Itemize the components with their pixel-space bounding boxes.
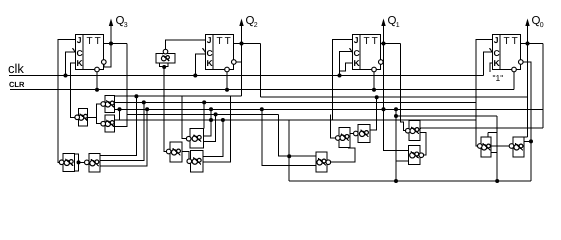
junction dot G9 pin2 on L2 <box>142 100 146 104</box>
wire G8 input bracket <box>75 154 79 171</box>
NAND gate G12 (output bubble right) <box>316 152 331 172</box>
bus L10 bottom y=181 <box>289 180 531 182</box>
NAND gate G9 <box>85 154 100 172</box>
wire G4 vert tap L3 to L6 <box>119 109 121 120</box>
svg-text:2: 2 <box>254 22 258 29</box>
clk input label <box>8 61 24 76</box>
NAND gate G10 <box>166 142 182 162</box>
wire clk to FF2 C input <box>193 54 205 78</box>
svg-text:T T: T T <box>504 36 518 47</box>
wire fork vertical to G3 and G4 bubbles <box>97 104 102 124</box>
wire FF2 Qbar bubble to junction leg <box>236 61 242 63</box>
wire Q0 junction leg down to G16 top <box>524 44 528 138</box>
flip-flop FF2 (bit Q2) with J C K inputs and TT label <box>203 35 237 72</box>
bus L6 y=120 <box>115 119 477 121</box>
output arrow and label Q3 <box>109 15 128 46</box>
wire G9 pin3 up to L3 <box>100 109 147 166</box>
wire G11 lower pin up to L1a <box>203 96 230 162</box>
wire clk end up to FF4 C input <box>483 52 492 76</box>
wire L3 down to G5 upper right pin <box>204 109 212 136</box>
junction dot G11 upper tap on L6 <box>221 118 225 122</box>
wire L4 down to G5 lower right pin <box>204 114 216 141</box>
NAND gate G11 <box>187 151 203 173</box>
wire G9 bubble to G8 input with dot <box>77 160 85 164</box>
wire G15 lower right pin stub <box>491 151 497 153</box>
wire L4 end down to G12 upper input <box>279 114 316 156</box>
svg-text:T T: T T <box>364 36 378 47</box>
NAND gate G1 (horizontal, output bubble on top, feeds FF2 J) <box>156 49 175 63</box>
svg-text:C: C <box>207 48 213 58</box>
wire G7 right to G6 bubble <box>350 133 355 135</box>
junction dot x396 on bottom bus <box>394 179 398 183</box>
wire clk to FF1 C input <box>64 52 76 78</box>
wire G1 output up and right to FF2 J <box>166 40 206 49</box>
wire L2 down to G5 top right <box>203 102 205 128</box>
wire G13 lower right pin to G14 output <box>420 132 426 155</box>
wire Q0 corner down to bus L8 <box>542 44 544 129</box>
junction dot x396 tap on L3 <box>394 107 398 111</box>
NAND gate G7 <box>336 128 351 148</box>
wire G6 right pin up to L1b <box>370 97 377 130</box>
wire Q2 corner down to bus L1b <box>260 44 262 98</box>
svg-text:J: J <box>207 35 212 45</box>
wire Q3 corner down to bus L4 and G4 lower pin <box>115 44 127 127</box>
wire Q1 junction leg down to G14 upper input <box>384 44 409 151</box>
junction dot G5 upper vert on L6 <box>209 118 213 122</box>
output arrow and label Q2 <box>239 15 257 46</box>
svg-text:K: K <box>494 58 501 68</box>
wire L6 tap down to bottom bus corner <box>288 120 290 181</box>
wire G12 output to G7 bottom <box>331 147 355 162</box>
wire CLR end up to FF4 clear bubble <box>513 72 515 90</box>
wire FF1 J vertical from G8 bubble <box>58 40 76 163</box>
bus L4 y=114.4 <box>127 113 279 115</box>
wire G1 stem down to G10 bubble <box>164 67 166 152</box>
wire L5b end down to G15 pin and bottom bus <box>496 116 498 181</box>
junction dot G9 pin1 on L1a <box>134 94 138 98</box>
NAND gate G4 <box>101 115 115 132</box>
junction dot L5b start <box>394 114 398 118</box>
junction dot G12 upper input 4-way <box>287 154 291 158</box>
svg-text:K: K <box>354 58 361 68</box>
svg-text:T T: T T <box>87 36 101 47</box>
svg-text:"1": "1" <box>493 73 504 83</box>
wire FF3 Qbar bubble to junction leg <box>382 61 385 63</box>
wire x396 stub to G14 lower input <box>396 160 409 162</box>
wire L4 down to G7 bubble <box>331 114 336 138</box>
wire FF2 clear bubble to CLR <box>225 72 229 92</box>
svg-text:K: K <box>207 58 214 68</box>
wire clk to FF3 C input <box>338 52 353 78</box>
wire FF4 K to constant 1 <box>490 63 493 72</box>
junction dot G5 lower vert on L4 <box>214 112 218 116</box>
wire G1 input yoke <box>159 63 168 68</box>
bus L8 (Q0 net) y=128 <box>420 127 543 129</box>
wire L3 down to G12 lower input <box>262 109 316 165</box>
wire G15 upper right pin to G16 bubble <box>491 145 509 147</box>
wire Q1 corner down to G13 input jog <box>401 44 406 131</box>
wire FF3 Q to junction and corner <box>381 43 401 45</box>
clk line (clock net) <box>9 75 483 77</box>
NAND gate G14 (output bubble right) <box>409 145 424 164</box>
wire FF3 K input jog <box>340 63 353 71</box>
svg-text:C: C <box>494 48 500 58</box>
wire FF1 Q to junction and corner <box>104 43 127 45</box>
junction dot G5 upper tap on L3 <box>209 107 213 111</box>
NAND gate G15 (drives FF4 J) <box>478 137 492 157</box>
wire FF3 J from bus L6 <box>332 40 352 121</box>
CLR line (clear net) <box>10 89 514 91</box>
NAND gate G3 <box>101 96 115 113</box>
junction dot G15 tap on bottom bus <box>495 179 499 183</box>
wire G5 bubble jog up to L1a <box>182 96 186 139</box>
junction dot G1 yoke <box>162 65 166 69</box>
wire G9 pin2 up to L2 <box>100 102 144 160</box>
junction dot G12 tap on L3 <box>260 107 264 111</box>
junction dot G6 tap on L1b <box>375 95 379 99</box>
NAND gate G16 <box>509 137 524 157</box>
wire FF4 Q to junction and corner <box>521 43 544 45</box>
wire FF4 Qbar bubble right and down to bottom bus <box>523 62 531 181</box>
flip-flop FF4 (bit Q0) with J C K inputs and TT label <box>490 35 524 72</box>
svg-text:K: K <box>77 58 84 68</box>
svg-text:J: J <box>494 35 499 45</box>
NAND gate G6 <box>354 125 371 143</box>
wire G16 right pin to Qbar0 vertical <box>524 139 533 143</box>
junction dot G4 vert tap on L3 <box>118 107 122 111</box>
output arrow and label Q0 <box>525 15 543 46</box>
svg-text:J: J <box>354 35 359 45</box>
NAND gate G5 <box>186 129 203 148</box>
svg-text:3: 3 <box>124 22 128 29</box>
bus L5b y=116 <box>396 115 497 117</box>
NAND gate G13 <box>406 121 421 141</box>
wire G10 right jog to G11 bubble <box>182 152 189 162</box>
svg-text:CLR: CLR <box>9 80 25 89</box>
CLR input label <box>9 80 25 89</box>
NAND gate G8 (drives FF1 J) <box>59 154 74 172</box>
wire FF1 clear bubble to CLR <box>95 72 99 92</box>
svg-text:J: J <box>77 35 82 45</box>
svg-text:C: C <box>354 48 360 58</box>
wire G13 upper right pin to L8 <box>420 128 421 130</box>
bus L2 y=102.4 <box>115 101 476 103</box>
wire L6 down to G11 upper pin <box>203 120 223 156</box>
svg-text:0: 0 <box>540 22 544 29</box>
wire G2 right to fork <box>88 116 97 118</box>
wire FF4 J vertical from G15 bubble <box>476 40 493 147</box>
wire G2 bubble left and up to FF1 K <box>70 63 75 117</box>
bus L1a (FF2 Qbar net) y=96.2 <box>115 95 242 97</box>
wire FF2 Q to junction and corner <box>234 43 261 45</box>
bus L1b (Q2 net) y=97.2 <box>261 96 527 98</box>
flip-flop FF1 (bit Q3) with J C K inputs and TT label <box>73 35 107 72</box>
wire x396 vertical L3 to bottom bus <box>395 109 397 181</box>
svg-text:1: 1 <box>396 22 400 29</box>
NAND gate G2 (drives FF1 K) <box>75 109 88 127</box>
constant "1" label at FF4 <box>493 73 504 83</box>
wire Z-tap from L5b vertical to G15 top <box>488 133 497 137</box>
wire FF1 Qbar bubble jog up to Q3 junction <box>104 44 111 68</box>
svg-text:T T: T T <box>217 36 231 47</box>
svg-text:C: C <box>77 48 83 58</box>
junction dot Q1 leg on bus L3 <box>382 107 386 111</box>
wire FF3 clear bubble to CLR <box>372 72 376 92</box>
junction dot G5 top tap on L2 <box>202 100 206 104</box>
svg-text:clk: clk <box>8 61 24 76</box>
flip-flop FF3 (bit Q1) with J C K inputs and TT label <box>350 35 384 72</box>
wire G9 pin1 up to L1a <box>100 96 137 155</box>
junction dot G9 pin3 on L3 <box>145 107 149 111</box>
bus L3 y=109.3 <box>115 108 544 110</box>
output arrow and label Q1 <box>381 15 399 46</box>
wire Q2 junction leg down to L1a end <box>241 44 243 97</box>
